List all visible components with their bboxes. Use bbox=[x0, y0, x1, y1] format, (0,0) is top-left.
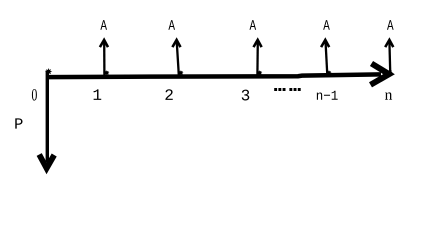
node 3 junction dot bbox=[257, 70, 262, 75]
label A above node 1 bbox=[100, 20, 107, 30]
node 2 junction dot bbox=[178, 70, 183, 75]
node 0 junction star bbox=[45, 68, 52, 75]
label n-1 bbox=[317, 91, 338, 100]
force arrow A at node n-1: shaft bbox=[326, 41, 328, 75]
node 1 junction dot bbox=[104, 70, 109, 75]
label 1 bbox=[94, 89, 102, 100]
force arrow A at node n-1: head bbox=[321, 40, 329, 47]
node n junction dot bbox=[387, 70, 392, 75]
force arrow A at node 2: head bbox=[172, 40, 180, 47]
force arrow A at node 1: head bbox=[100, 40, 108, 47]
label A above node 2 bbox=[168, 20, 175, 30]
label n bbox=[385, 92, 392, 99]
label A above node 3 bbox=[250, 20, 257, 30]
label A above node n bbox=[387, 20, 394, 30]
beam axis 0-n bbox=[46, 74, 381, 77]
force arrow A at node 1: shaft bbox=[103, 41, 106, 75]
node n-1 junction dot bbox=[326, 70, 331, 75]
force arrow A at node 3: shaft bbox=[256, 41, 259, 75]
ellipsis dots between 3 and n-1 bbox=[274, 88, 300, 91]
force P arrowhead bbox=[39, 155, 54, 169]
force arrow A at node n: shaft bbox=[388, 41, 391, 72]
axis arrowhead (right end, node n) bbox=[371, 64, 390, 85]
label 2 bbox=[165, 89, 172, 100]
label A above node n-1 bbox=[323, 20, 330, 30]
label 0 bbox=[32, 89, 37, 101]
force arrow A at node 3: head bbox=[254, 40, 262, 47]
label 3 bbox=[242, 90, 250, 101]
force P arrow shaft (downward at node 0) bbox=[46, 71, 49, 163]
force arrow A at node n: head bbox=[385, 40, 393, 47]
label P bbox=[15, 118, 22, 128]
force arrow A at node 2: shaft bbox=[177, 41, 179, 75]
